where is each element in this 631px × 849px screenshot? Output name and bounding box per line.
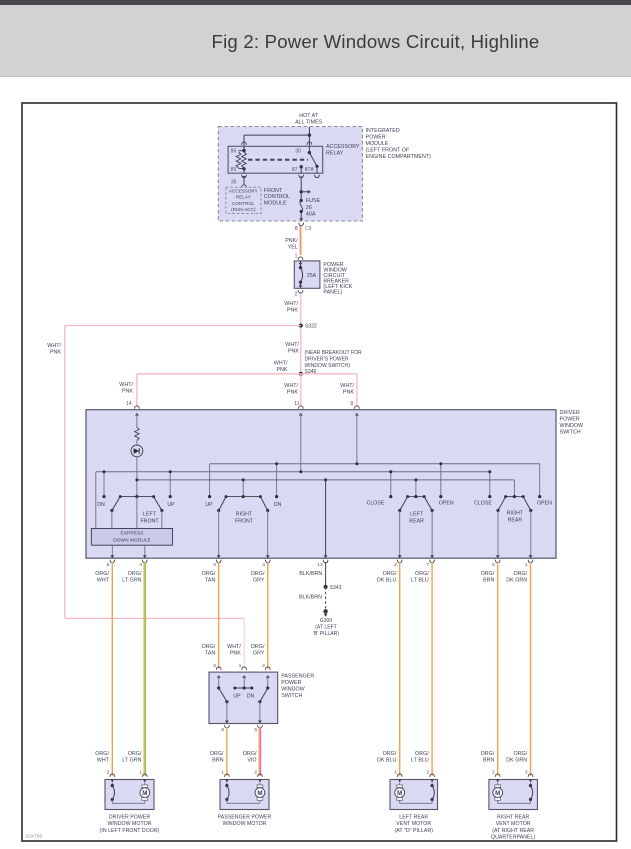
svg-text:35: 35 xyxy=(231,179,237,185)
svg-text:LT BLU: LT BLU xyxy=(411,757,429,763)
svg-text:1: 1 xyxy=(239,663,242,669)
svg-text:FRONT: FRONT xyxy=(235,519,254,525)
svg-text:3: 3 xyxy=(525,769,528,775)
svg-text:PANEL): PANEL) xyxy=(323,290,342,296)
svg-text:5: 5 xyxy=(254,727,257,733)
svg-text:LT GRN: LT GRN xyxy=(122,757,141,763)
svg-text:DRIVER'S POWER: DRIVER'S POWER xyxy=(305,357,349,363)
svg-text:TAN: TAN xyxy=(205,578,215,584)
svg-text:PNK: PNK xyxy=(287,307,298,313)
svg-text:ORG/: ORG/ xyxy=(202,644,216,650)
svg-text:4: 4 xyxy=(139,562,142,568)
svg-text:WINDOW: WINDOW xyxy=(281,686,305,692)
svg-text:22X782: 22X782 xyxy=(26,834,43,840)
svg-text:WHT/: WHT/ xyxy=(227,644,241,650)
svg-text:ORG/: ORG/ xyxy=(513,571,527,577)
svg-text:POWER: POWER xyxy=(281,680,301,686)
svg-text:5: 5 xyxy=(492,562,495,568)
svg-text:SWITCH: SWITCH xyxy=(281,693,302,699)
svg-text:ACCESSORY: ACCESSORY xyxy=(229,189,258,194)
svg-text:ORG/: ORG/ xyxy=(415,751,429,757)
svg-text:ENGINE COMPARTMENT): ENGINE COMPARTMENT) xyxy=(366,154,432,160)
svg-text:6: 6 xyxy=(107,562,110,568)
svg-text:4: 4 xyxy=(262,562,265,568)
svg-text:BLK/BRN: BLK/BRN xyxy=(299,594,322,600)
svg-text:ORG/: ORG/ xyxy=(95,571,109,577)
svg-text:86: 86 xyxy=(231,149,237,155)
svg-text:(IN LEFT FRONT DOOR): (IN LEFT FRONT DOOR) xyxy=(100,828,160,834)
svg-text:BRN: BRN xyxy=(483,578,494,584)
svg-text:FUSE: FUSE xyxy=(306,198,321,204)
svg-text:ORG/: ORG/ xyxy=(415,571,429,577)
svg-text:CONTROL: CONTROL xyxy=(264,194,290,200)
svg-text:(AT RIGHT REAR: (AT RIGHT REAR xyxy=(492,828,534,834)
svg-text:GRY: GRY xyxy=(253,578,265,584)
svg-text:VENT MOTOR: VENT MOTOR xyxy=(496,821,531,827)
svg-text:WHT: WHT xyxy=(97,578,110,584)
svg-text:UP: UP xyxy=(167,502,175,508)
svg-text:PNK: PNK xyxy=(50,349,61,355)
svg-text:87: 87 xyxy=(292,167,298,173)
svg-text:(AT LEFT: (AT LEFT xyxy=(315,625,337,631)
svg-text:PNK: PNK xyxy=(288,349,299,355)
svg-text:FRONT: FRONT xyxy=(264,188,283,194)
svg-text:1: 1 xyxy=(525,562,528,568)
svg-text:PNK: PNK xyxy=(287,389,298,395)
svg-text:DK BLU: DK BLU xyxy=(377,578,397,584)
svg-text:26: 26 xyxy=(306,205,312,211)
svg-text:8: 8 xyxy=(350,401,353,407)
svg-text:TAN: TAN xyxy=(205,651,215,657)
svg-text:ORG/: ORG/ xyxy=(95,751,109,757)
svg-text:ORG/: ORG/ xyxy=(128,571,142,577)
svg-text:2: 2 xyxy=(254,769,257,775)
svg-text:ORG/: ORG/ xyxy=(243,751,257,757)
svg-text:LEFT: LEFT xyxy=(143,512,157,518)
svg-text:(LEFT FRONT OF: (LEFT FRONT OF xyxy=(366,148,410,154)
svg-text:CONTROL: CONTROL xyxy=(232,201,255,206)
svg-text:DRIVER POWER: DRIVER POWER xyxy=(109,815,150,821)
svg-text:LT BLU: LT BLU xyxy=(411,578,429,584)
svg-text:DN: DN xyxy=(274,502,282,508)
svg-text:DK BLU: DK BLU xyxy=(377,757,397,763)
svg-text:MODULE: MODULE xyxy=(264,200,287,206)
svg-text:VENT MOTOR: VENT MOTOR xyxy=(396,821,431,827)
svg-text:1: 1 xyxy=(139,769,142,775)
svg-text:RELAY: RELAY xyxy=(236,195,251,200)
svg-text:BRN: BRN xyxy=(212,757,223,763)
svg-text:POWER: POWER xyxy=(366,135,386,141)
svg-text:CLOSE: CLOSE xyxy=(474,500,492,506)
svg-text:2: 2 xyxy=(427,769,430,775)
svg-text:WINDOW SWITCH): WINDOW SWITCH) xyxy=(305,363,351,369)
svg-text:13: 13 xyxy=(317,562,323,568)
svg-text:M: M xyxy=(142,790,147,797)
svg-text:OPEN: OPEN xyxy=(439,500,454,506)
svg-text:FRONT: FRONT xyxy=(140,519,159,525)
svg-text:C9: C9 xyxy=(305,226,312,232)
svg-text:DRIVER: DRIVER xyxy=(560,410,580,416)
svg-text:DN: DN xyxy=(247,693,255,699)
svg-text:PNK: PNK xyxy=(122,389,133,395)
svg-text:PNK: PNK xyxy=(230,651,241,657)
svg-text:2: 2 xyxy=(107,769,110,775)
svg-text:BLK/BRN: BLK/BRN xyxy=(299,571,322,577)
svg-text:RIGHT: RIGHT xyxy=(507,510,524,516)
svg-text:UP: UP xyxy=(233,693,241,699)
svg-text:3: 3 xyxy=(213,663,216,669)
svg-text:(NEAR BREAKOUT FOR: (NEAR BREAKOUT FOR xyxy=(305,350,363,356)
svg-text:WINDOW MOTOR: WINDOW MOTOR xyxy=(222,821,266,827)
svg-text:ALL TIMES: ALL TIMES xyxy=(295,119,323,125)
svg-text:HOT AT: HOT AT xyxy=(299,113,319,119)
svg-text:6: 6 xyxy=(221,727,224,733)
svg-text:LT GRN: LT GRN xyxy=(122,578,141,584)
svg-text:WHT/: WHT/ xyxy=(284,301,298,307)
svg-text:2: 2 xyxy=(262,663,265,669)
svg-text:ORG/: ORG/ xyxy=(251,571,265,577)
svg-text:DOWN MODULE: DOWN MODULE xyxy=(113,537,151,543)
svg-text:2: 2 xyxy=(394,562,397,568)
svg-text:14: 14 xyxy=(126,401,132,407)
svg-text:30: 30 xyxy=(295,149,301,155)
svg-text:2: 2 xyxy=(295,291,298,297)
svg-text:DN: DN xyxy=(97,502,105,508)
svg-text:DK GRN: DK GRN xyxy=(506,578,527,584)
svg-text:1: 1 xyxy=(394,769,397,775)
svg-text:WHT/: WHT/ xyxy=(274,361,288,367)
svg-text:1: 1 xyxy=(221,769,224,775)
svg-text:BRN: BRN xyxy=(483,757,494,763)
svg-text:CLOSE: CLOSE xyxy=(367,500,385,506)
svg-text:(AT "D" PILLAR): (AT "D" PILLAR) xyxy=(394,828,433,834)
svg-text:RELAY: RELAY xyxy=(326,150,344,156)
svg-text:YEL: YEL xyxy=(288,244,298,250)
svg-text:ORG/: ORG/ xyxy=(383,571,397,577)
svg-text:VIO: VIO xyxy=(247,757,256,763)
svg-text:G300: G300 xyxy=(320,618,333,624)
svg-text:ORG/: ORG/ xyxy=(210,751,224,757)
svg-text:87A: 87A xyxy=(305,167,315,173)
svg-text:ORG/: ORG/ xyxy=(481,571,495,577)
svg-text:ORG/: ORG/ xyxy=(251,644,265,650)
svg-text:WHT/: WHT/ xyxy=(47,343,61,349)
svg-text:PNK/: PNK/ xyxy=(285,238,298,244)
svg-text:REAR: REAR xyxy=(508,517,523,523)
svg-text:3: 3 xyxy=(213,562,216,568)
svg-text:WINDOW: WINDOW xyxy=(560,423,584,429)
svg-text:WHT/: WHT/ xyxy=(340,383,354,389)
svg-text:UP: UP xyxy=(205,502,213,508)
svg-text:INTEGRATED: INTEGRATED xyxy=(366,128,400,134)
svg-text:RIGHT: RIGHT xyxy=(236,512,253,518)
svg-text:2: 2 xyxy=(492,769,495,775)
svg-text:LEFT REAR: LEFT REAR xyxy=(399,815,428,821)
svg-text:1: 1 xyxy=(295,253,298,259)
svg-text:(RUN-ACC): (RUN-ACC) xyxy=(231,207,256,212)
svg-text:ORG/: ORG/ xyxy=(383,751,397,757)
svg-text:85: 85 xyxy=(231,167,237,173)
svg-text:7: 7 xyxy=(427,562,430,568)
svg-text:8: 8 xyxy=(295,226,298,232)
svg-text:PASSENGER POWER: PASSENGER POWER xyxy=(218,815,272,821)
svg-text:LEFT: LEFT xyxy=(410,511,424,517)
svg-text:ORG/: ORG/ xyxy=(202,571,216,577)
svg-text:S343: S343 xyxy=(330,585,342,591)
svg-text:EXPRESS: EXPRESS xyxy=(120,531,143,537)
svg-text:WHT/: WHT/ xyxy=(285,342,299,348)
svg-text:WINDOW MOTOR: WINDOW MOTOR xyxy=(107,821,151,827)
svg-text:WHT/: WHT/ xyxy=(284,383,298,389)
svg-text:SWITCH: SWITCH xyxy=(560,430,581,436)
svg-text:40A: 40A xyxy=(306,212,316,218)
svg-text:ORG/: ORG/ xyxy=(513,751,527,757)
svg-text:M: M xyxy=(397,790,402,797)
svg-text:QUARTERPANEL): QUARTERPANEL) xyxy=(491,834,535,840)
svg-text:RIGHT REAR: RIGHT REAR xyxy=(497,815,530,821)
svg-text:MODULE: MODULE xyxy=(366,141,389,147)
svg-text:ORG/: ORG/ xyxy=(481,751,495,757)
svg-text:M: M xyxy=(495,790,500,797)
svg-text:ORG/: ORG/ xyxy=(128,751,142,757)
svg-text:REAR: REAR xyxy=(409,518,424,524)
svg-text:PNK: PNK xyxy=(343,389,354,395)
svg-text:OPEN: OPEN xyxy=(537,500,552,506)
svg-text:POWER: POWER xyxy=(560,417,580,423)
svg-text:ACCESSORY: ACCESSORY xyxy=(326,144,360,150)
svg-text:PNK: PNK xyxy=(276,367,287,373)
svg-text:25A: 25A xyxy=(307,273,317,279)
svg-text:WHT/: WHT/ xyxy=(119,382,133,388)
svg-text:S322: S322 xyxy=(305,324,317,330)
svg-text:DK GRN: DK GRN xyxy=(506,757,527,763)
svg-text:PASSENGER: PASSENGER xyxy=(281,673,314,679)
svg-text:M: M xyxy=(257,790,262,797)
svg-text:WHT: WHT xyxy=(97,757,110,763)
svg-text:'B' PILLAR): 'B' PILLAR) xyxy=(313,631,339,637)
svg-text:GRY: GRY xyxy=(253,651,265,657)
